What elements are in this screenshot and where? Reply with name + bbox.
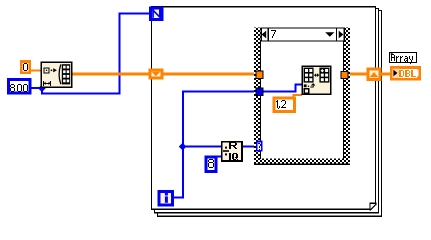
constant 800 bbox=[9, 80, 30, 94]
for loop frame back rect 3 bbox=[158, 11, 382, 217]
for loop main frame bbox=[152, 7, 376, 210]
wire: 1,2 constant to replace icon bbox=[292, 94, 302, 97]
initialize array icon bbox=[41, 62, 71, 87]
i terminal bbox=[159, 192, 172, 205]
replace array subset icon bbox=[302, 66, 330, 94]
case tunnel orange right bbox=[341, 71, 348, 78]
DBL indicator bbox=[391, 68, 420, 80]
case selector bar bbox=[261, 27, 344, 41]
for loop frame back rect 2 bbox=[155, 9, 379, 213]
case tunnel orange left bbox=[256, 71, 263, 78]
loop tunnel left (indexing input) bbox=[150, 70, 162, 78]
wire: 8 stub to QR bbox=[215, 155, 221, 157]
quotient remainder icon bbox=[222, 142, 242, 161]
Array label bbox=[390, 53, 417, 65]
case tunnel blue left bbox=[256, 88, 263, 95]
selector label 7 bbox=[271, 30, 276, 38]
wire: 0 constant to init array bbox=[31, 69, 41, 71]
wire: main orange array wire bbox=[72, 73, 390, 76]
junction dot i wire bbox=[179, 143, 187, 151]
constant 1,2 bbox=[274, 98, 295, 112]
wire: i to case tunnel and QR node bbox=[174, 90, 258, 198]
N terminal bbox=[150, 8, 162, 20]
wire: i wire inside case to replace icon bbox=[264, 84, 303, 93]
case structure hatched border bbox=[254, 27, 350, 165]
loop tunnel right (indexing output) bbox=[368, 69, 380, 79]
junction dot 800 wire bbox=[38, 84, 46, 92]
constant 8 bbox=[206, 157, 216, 172]
constant 0 bbox=[21, 62, 29, 73]
wire: QR output to case selector bbox=[242, 146, 255, 148]
for loop corner fold bbox=[370, 203, 377, 210]
case selector ? terminal bbox=[257, 142, 262, 151]
wire: 800 to N bbox=[31, 13, 148, 95]
